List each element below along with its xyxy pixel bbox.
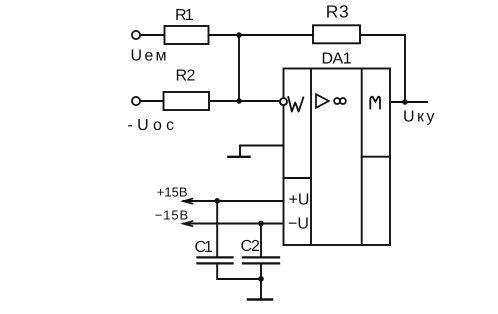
- junction output node: [402, 99, 408, 105]
- wire ground node down: [260, 279, 262, 299]
- svg-text:−U: −U: [288, 215, 309, 232]
- terminal input Uем: [132, 31, 140, 39]
- wire R3 right down to output node: [360, 35, 405, 102]
- chassis ground bar upper: [229, 156, 250, 158]
- infinity symbol: [334, 98, 340, 104]
- wire R2 to op-amp inverting input: [209, 100, 280, 102]
- junction -15V / C2: [258, 221, 264, 227]
- wire C1 bottom to ground node: [217, 264, 261, 279]
- svg-text:−15В: −15В: [155, 207, 189, 222]
- svg-text:Uем: Uем: [131, 48, 169, 65]
- -15V supply wire: [184, 223, 284, 225]
- op-amp divider right column: [361, 69, 363, 246]
- wire terminal to R2: [140, 100, 163, 102]
- wire terminal to R1: [140, 34, 164, 36]
- wire R1 to node A / R3: [209, 34, 314, 36]
- svg-text:R2: R2: [176, 68, 196, 85]
- junction node A: [236, 32, 242, 38]
- ground wire from op-amp: [240, 146, 284, 157]
- +15V arrowhead: [183, 199, 192, 204]
- svg-text:R1: R1: [175, 7, 194, 24]
- wire -15V node down to C2: [260, 224, 262, 257]
- +15V supply wire: [184, 200, 284, 202]
- svg-text:-Uос: -Uос: [128, 117, 179, 134]
- capacitor C2 plates: [243, 256, 279, 258]
- capacitor C1 plates: [198, 256, 233, 258]
- junction C1/C2 ground: [258, 276, 264, 282]
- resistor R2: [164, 92, 210, 110]
- wire node A down to node B: [238, 35, 240, 101]
- svg-text:+U: +U: [289, 192, 310, 209]
- resistor R3: [313, 25, 360, 43]
- resistor R1: [165, 26, 209, 44]
- svg-text:DA1: DA1: [322, 51, 352, 68]
- svg-text:+15В: +15В: [157, 184, 188, 199]
- op-amp right column horizontal divider: [362, 156, 390, 158]
- inverting input circle: [280, 98, 287, 105]
- -15V arrowhead: [183, 221, 192, 226]
- op-amp divider left column: [310, 69, 312, 246]
- terminal input -Uос: [132, 97, 140, 105]
- svg-text:C2: C2: [241, 238, 261, 255]
- W glyph at inverting input: [288, 97, 303, 112]
- chassis ground bar lower: [248, 298, 272, 301]
- wire C2 bottom to ground node: [260, 264, 262, 279]
- wire output of op-amp: [390, 101, 427, 103]
- svg-text:Uку: Uку: [403, 109, 437, 126]
- op-amp left column horizontal divider: [284, 177, 312, 179]
- op-amp DA1 body: [284, 69, 391, 246]
- junction +15V / C1: [214, 198, 220, 204]
- svg-text:C1: C1: [195, 239, 214, 256]
- op-amp triangle symbol: [316, 94, 329, 108]
- wire +15V node down to C1: [216, 201, 218, 257]
- м glyph at output column: [370, 97, 380, 109]
- svg-text:R3: R3: [326, 2, 350, 22]
- junction node B: [236, 98, 242, 104]
